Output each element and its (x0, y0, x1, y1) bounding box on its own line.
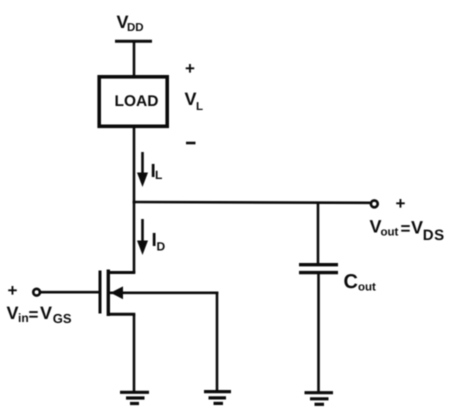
body wire down (216, 292, 219, 392)
gate wire (41, 291, 100, 294)
svg-text:=: = (29, 305, 39, 324)
output terminal (371, 201, 378, 208)
label Cout (344, 271, 377, 294)
label VL (185, 89, 204, 113)
current arrow IL (137, 152, 148, 187)
svg-text:C: C (344, 271, 358, 293)
svg-text:DS: DS (423, 227, 445, 244)
svg-text:V: V (40, 303, 52, 323)
label ID (152, 230, 166, 254)
label Vout = VDS (370, 217, 445, 245)
svg-text:D: D (157, 240, 166, 254)
svg-text:V: V (411, 218, 423, 238)
drain lead (107, 271, 135, 274)
load box (99, 77, 167, 127)
svg-text:L: L (155, 168, 162, 182)
svg-text:out: out (381, 227, 399, 239)
source wire to ground (133, 314, 136, 392)
svg-text:V: V (7, 303, 19, 323)
wire VDD to load (133, 41, 136, 77)
label Vin = VGS (7, 303, 72, 326)
input terminal (33, 289, 40, 296)
svg-text:in: in (18, 311, 29, 325)
source lead (107, 313, 135, 316)
label IL (151, 161, 163, 182)
body lead with arrow (110, 291, 218, 294)
svg-text:L: L (196, 101, 203, 113)
drain wire (133, 202, 136, 273)
svg-text:out: out (358, 282, 376, 294)
svg-text:V: V (185, 89, 197, 109)
ground (capacitor branch) (305, 393, 334, 405)
transistor M1 (NMOS) (100, 270, 218, 317)
svg-text:DD: DD (127, 22, 144, 34)
gate bar (99, 271, 102, 314)
channel bar (107, 270, 110, 317)
svg-text:+: + (396, 194, 406, 213)
wire capacitor to ground (317, 273, 320, 393)
ground (source) (120, 392, 149, 403)
svg-text:+: + (185, 59, 195, 78)
current arrow ID (137, 219, 148, 255)
svg-text:LOAD: LOAD (115, 93, 159, 110)
svg-text:+: + (8, 281, 18, 300)
wire load to node (133, 126, 136, 203)
svg-text:GS: GS (53, 311, 72, 326)
svg-text:=: = (401, 219, 411, 238)
minus sign VL (186, 142, 196, 145)
wire node to capacitor (317, 202, 320, 265)
wire node to output (133, 201, 370, 204)
power rail VDD (115, 40, 152, 43)
ground (body) (204, 392, 231, 404)
net VDD label (117, 12, 144, 34)
capacitor Cout (299, 265, 338, 273)
